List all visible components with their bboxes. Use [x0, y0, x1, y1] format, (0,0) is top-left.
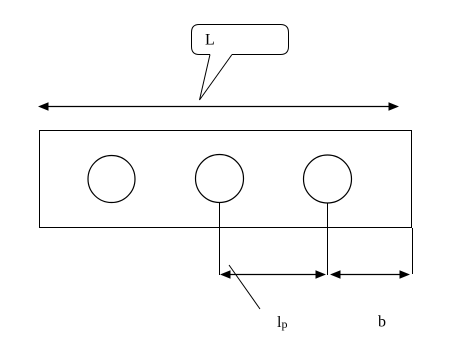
arrowhead right of L dimension [389, 102, 400, 110]
extension line from hole 3 [327, 203, 329, 275]
svg-text:lp: lp [277, 314, 287, 331]
arrowhead right of b dimension [400, 270, 411, 278]
svg-text:L: L [205, 32, 215, 49]
plate rectangle [40, 131, 412, 228]
dimension line L (overall length, double arrow) [43, 106, 394, 108]
hole circle 1 [88, 156, 135, 203]
arrowhead left of L dimension [38, 102, 49, 110]
callout tail [200, 55, 233, 101]
svg-text:b: b [378, 314, 386, 331]
arrowhead left of lp dimension [220, 270, 231, 278]
extension line at right edge [412, 228, 414, 274]
dimension line lp (hole pitch) [224, 274, 322, 276]
hole circle 2 [196, 155, 244, 203]
leader line to lp label [229, 265, 260, 309]
arrowhead left of b dimension [330, 270, 341, 278]
extension line from hole 2 [219, 203, 221, 276]
arrowhead right of lp dimension [316, 270, 327, 278]
dimension line b (edge distance) [334, 274, 406, 276]
hole circle 3 [304, 155, 352, 203]
callout bubble (speech balloon) [192, 25, 289, 55]
